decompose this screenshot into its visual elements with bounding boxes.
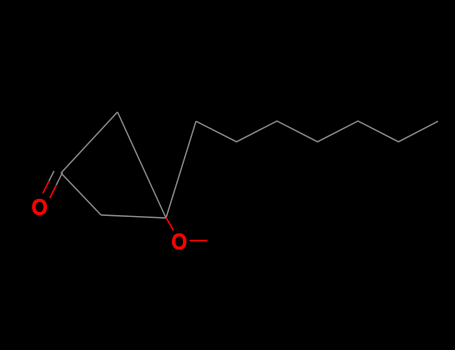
bond V-B bottom edge	[101, 215, 166, 218]
bond C1-A ring upper-left edge	[61, 112, 118, 173]
bond B-CS chain connector	[166, 121, 196, 218]
svg-text:O: O	[171, 228, 187, 255]
atom O1 carbonyl oxygen	[31, 194, 47, 220]
bond A-B ring right edge	[118, 112, 167, 218]
bond B-O2 red	[166, 218, 174, 231]
bond O2-CH3 red half	[190, 240, 208, 242]
carbonyl C=O gray halves	[49, 171, 63, 185]
bond C1-V bottom-left edge	[61, 173, 101, 215]
chain zigzag heptyl	[196, 121, 438, 142]
svg-text:O: O	[31, 194, 47, 220]
atom O2 ether oxygen	[171, 228, 187, 255]
carbonyl C=O red halves	[43, 181, 56, 198]
